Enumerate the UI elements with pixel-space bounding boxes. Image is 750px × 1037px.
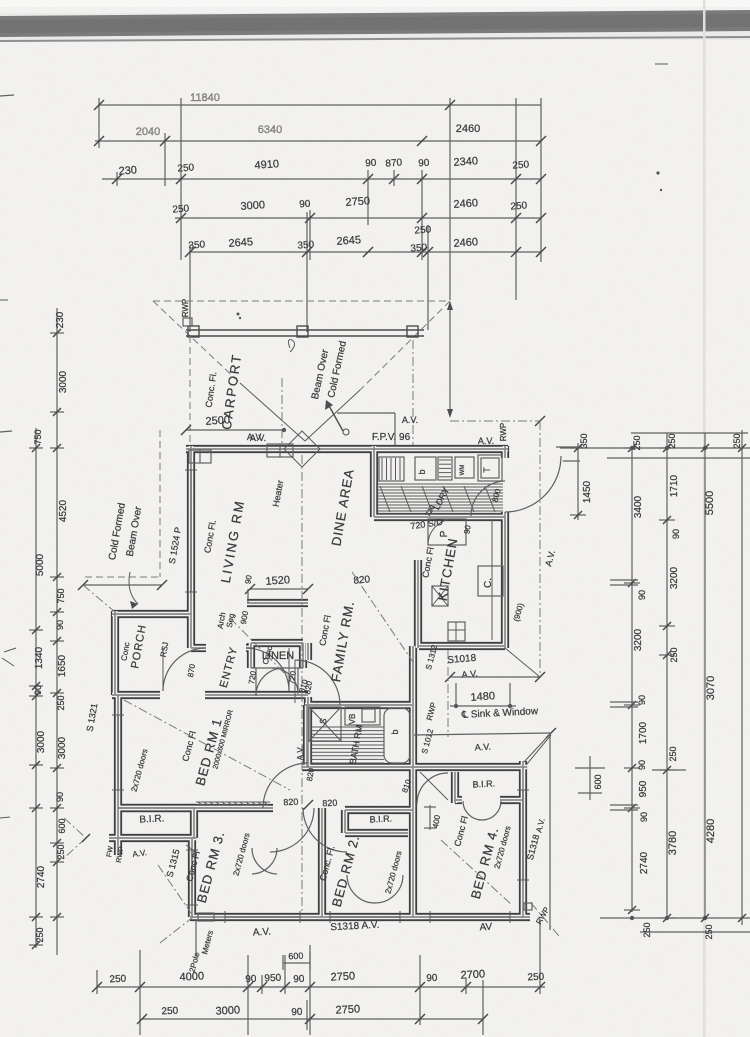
kitchen AV centerline bbox=[447, 650, 449, 737]
bottom dimension rows bbox=[97, 986, 545, 988]
bottom right small sq bbox=[524, 903, 532, 910]
thin line under bar bbox=[0, 36, 750, 42]
walls inner strokes bbox=[186, 447, 508, 452]
windows bbox=[190, 470, 192, 592]
carport hot water platform bbox=[337, 412, 395, 414]
right dimension chains bbox=[577, 443, 579, 520]
bed1 robe mirror strip bbox=[196, 801, 270, 803]
cold formed beam dashed outline bbox=[153, 300, 450, 302]
kitchen fixtures bbox=[428, 519, 466, 545]
carport beam with posts bbox=[186, 329, 424, 331]
flue arrow marker bbox=[328, 404, 343, 431]
entry door arcs bbox=[163, 648, 206, 691]
scan edge artifacts bbox=[0, 95, 14, 96]
tub bbox=[384, 708, 410, 763]
A.V. diamond on wall bbox=[284, 431, 320, 467]
heater box bbox=[267, 444, 293, 457]
A.V. line above bed4 bbox=[414, 733, 551, 735]
bed1 diag bbox=[124, 700, 290, 790]
laundry strip hatching bbox=[376, 483, 503, 485]
porch beam dashed bbox=[159, 430, 161, 577]
family door arc bbox=[295, 660, 340, 705]
1520 arch dim bbox=[250, 588, 308, 590]
corner diagonals bottom-left bbox=[158, 865, 193, 916]
top dimension lines bbox=[99, 104, 541, 106]
1480 sink dim bbox=[450, 676, 540, 678]
beam corner dashdot to right bbox=[450, 420, 540, 422]
dine A.V. centerline bbox=[412, 340, 414, 446]
left dimension chain outer bbox=[35, 428, 37, 948]
white strip above bar bbox=[0, 0, 750, 13]
vanity bbox=[345, 707, 380, 725]
laundry door arcs bbox=[505, 456, 561, 512]
400 dim bbox=[429, 805, 431, 830]
scanner dark bar bbox=[0, 10, 750, 37]
bed4 diag bbox=[441, 840, 512, 905]
walls outer strokes bbox=[186, 445, 508, 453]
bed4 NE chamfer bbox=[527, 735, 551, 764]
beam width arrow line bbox=[449, 305, 451, 414]
top dimension vertical guides bbox=[98, 98, 100, 148]
carport 2500 dim bbox=[186, 429, 284, 431]
walls center lines bbox=[186, 448, 508, 450]
carport A.V. centerline bbox=[281, 378, 283, 446]
living A.V. centerline bbox=[301, 455, 303, 912]
laundry units bbox=[379, 457, 404, 481]
carport west dashed wall bbox=[189, 336, 191, 446]
family diag dashdot bbox=[352, 572, 413, 662]
hall door arcs bbox=[270, 808, 314, 852]
bed1 door arc bbox=[263, 763, 308, 808]
bath hatching bbox=[310, 726, 384, 728]
left dimension chain inner bbox=[56, 308, 58, 955]
shower bbox=[309, 707, 341, 741]
faint vertical scan line bbox=[703, 0, 706, 1037]
